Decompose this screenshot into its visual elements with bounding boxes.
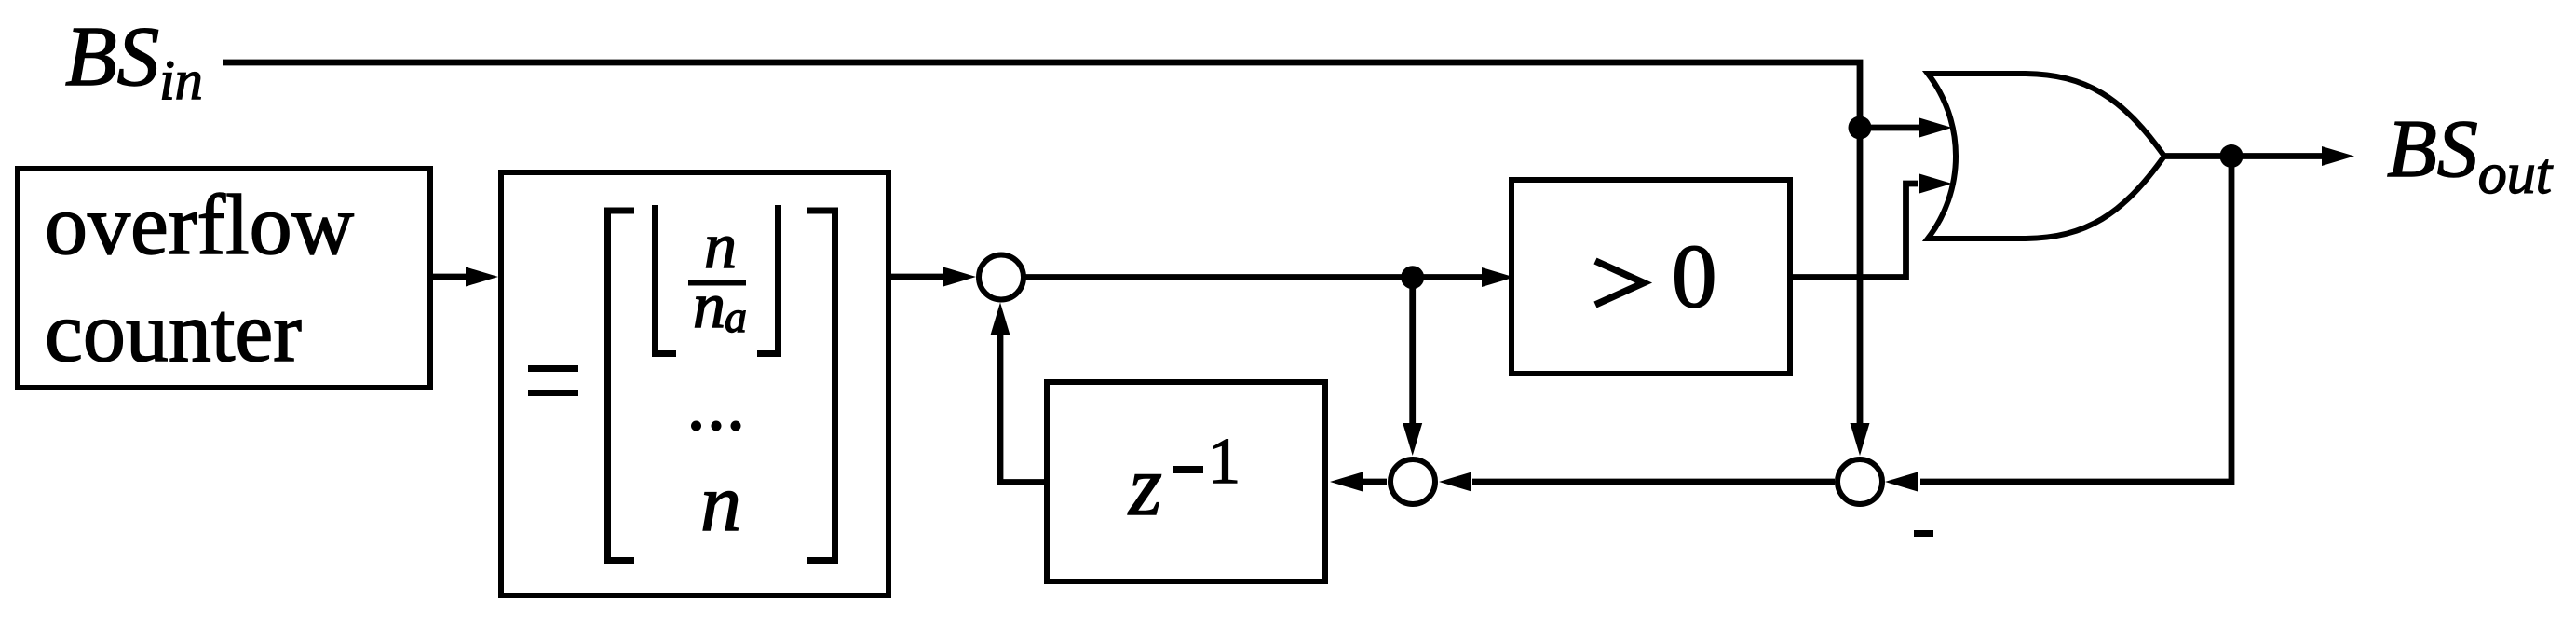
bracket outer right [807, 211, 835, 561]
OR gate U1 [1928, 74, 2164, 239]
arrowhead into comparator box [1482, 267, 1514, 287]
arrowhead into summer S3 right [1885, 472, 1918, 492]
svg-text:z: z [1127, 438, 1162, 533]
arrowhead into summer S2 right [1439, 472, 1471, 492]
arrowhead into delay box [1330, 472, 1363, 492]
svg-text:0: 0 [1672, 226, 1717, 326]
svg-text:overflow: overflow [45, 177, 355, 272]
equals sign [528, 365, 578, 372]
arrowhead into OR input 1 [1919, 118, 1952, 138]
summer S1 [979, 255, 1024, 300]
fraction bar [688, 280, 746, 286]
wire junction down to summer S2 [1409, 278, 1416, 426]
bracket outer left [608, 211, 635, 561]
cdots [691, 421, 701, 431]
svg-text:n: n [693, 270, 725, 342]
svg-text:1: 1 [1208, 426, 1241, 498]
svg-text:n: n [700, 458, 741, 549]
arrowhead into OR input 2 [1919, 174, 1952, 194]
box delay z^-1 [1047, 382, 1325, 581]
wire OR output to BSout [2162, 153, 2323, 159]
wire junction to OR input 1 [1860, 125, 1920, 131]
arrowhead down into summer S2 [1403, 423, 1422, 456]
wire delay box left and up to summer S1 [1000, 334, 1047, 483]
arrowhead into summer S1 [943, 267, 976, 287]
wire vector box to summer S1 [891, 274, 945, 280]
wire BSin horizontal then down to junction [223, 62, 1860, 426]
floor bracket right [757, 205, 779, 354]
svg-text:counter: counter [45, 284, 302, 379]
arrowhead to BSout label [2322, 146, 2354, 166]
arrowhead up into summer S1 bottom [991, 303, 1010, 335]
summer S2 [1390, 459, 1435, 504]
box comparator >0 [1512, 180, 1790, 374]
box vector assignment [501, 172, 888, 595]
label > 0 [1595, 261, 1644, 305]
junction dot on OR output [2220, 144, 2244, 168]
wire summer S3 to summer S2 [1472, 479, 1835, 485]
arrowhead into vector box [466, 267, 498, 287]
minus label at S3 [1914, 530, 1933, 537]
svg-text:a: a [725, 293, 747, 342]
floor bracket left [656, 205, 677, 354]
arrowhead down into summer S3 [1851, 423, 1870, 456]
summer S3 [1837, 459, 1882, 504]
wire feedback from output down and left to summer S3 [1920, 157, 2231, 483]
wire overflow counter to vector box [430, 274, 467, 280]
box overflow counter [18, 169, 430, 388]
wire comparator to OR input 2 with jog up [1790, 184, 1918, 278]
wire summer S1 to comparator box [1024, 274, 1483, 280]
junction dot on BSin drop [1849, 116, 1872, 140]
wire summer S2 to delay box [1363, 479, 1387, 485]
junction dot on S1 output [1401, 266, 1424, 289]
